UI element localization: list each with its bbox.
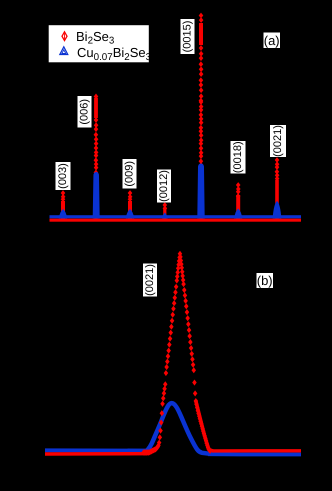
- node (006) label: [78, 96, 92, 128]
- blue peak x=63.0: [59, 209, 68, 219]
- node (009) label: [123, 159, 137, 189]
- red peak (0012): [163, 202, 168, 219]
- blue peak x=164.8: [162, 213, 168, 219]
- node (0018) label: [231, 141, 246, 174]
- node (a) label: [264, 33, 281, 49]
- node (0021) label b: [143, 264, 157, 297]
- svg-text:(003): (003): [57, 163, 69, 189]
- svg-text:(0021): (0021): [144, 264, 156, 296]
- svg-text:(0018): (0018): [232, 141, 244, 173]
- red peak (003): [61, 190, 66, 219]
- blue peak x=96.2: [93, 172, 100, 219]
- wire red baseline b: [45, 452, 147, 456]
- red peak (0015): [199, 13, 204, 220]
- red curve (b): [196, 400, 213, 451]
- legend red diamond marker: [62, 32, 67, 41]
- svg-text:(0021): (0021): [272, 125, 284, 157]
- wire: [50, 215, 302, 218]
- node (b) label: [257, 273, 274, 288]
- node (003) label: [56, 162, 71, 190]
- blue peak x=238.2: [234, 209, 242, 219]
- svg-text:(a): (a): [264, 33, 280, 48]
- blue peak x=201.0: [197, 164, 204, 219]
- svg-text:(009): (009): [124, 161, 136, 187]
- node (0012) label: [157, 170, 171, 203]
- blue curve (b): [146, 403, 210, 454]
- red peak (0018): [236, 182, 241, 219]
- svg-text:(006): (006): [79, 99, 91, 125]
- wire: [50, 219, 302, 222]
- svg-text:(0012): (0012): [158, 170, 170, 202]
- blue peak x=130.0: [126, 209, 135, 219]
- red peak (009): [128, 190, 133, 219]
- red peak (006): [94, 94, 99, 220]
- legend box: [48, 25, 150, 64]
- node (0015) label: [181, 19, 195, 54]
- svg-text:(0015): (0015): [182, 21, 194, 53]
- svg-text:(b): (b): [257, 273, 273, 288]
- red peak (0021): [275, 157, 280, 219]
- node (0021) label: [270, 125, 286, 157]
- legend blue triangle marker: [60, 47, 68, 55]
- wire blue baseline b: [45, 448, 147, 452]
- blue peak x=277.0: [273, 201, 282, 219]
